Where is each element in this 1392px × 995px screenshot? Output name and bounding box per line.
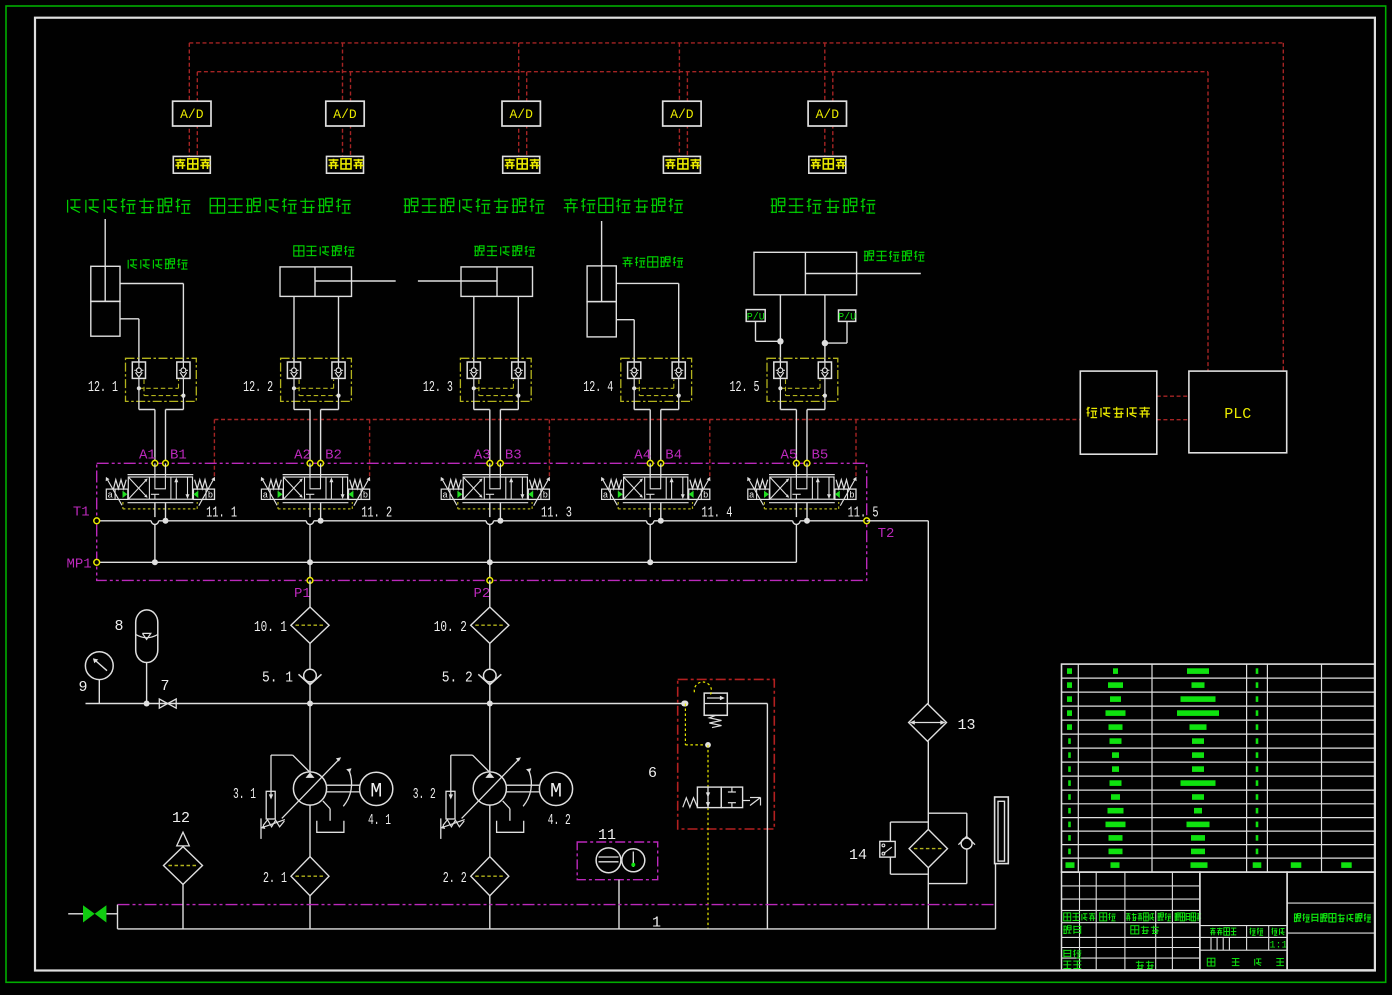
svg-text:12. 5: 12. 5 [730,379,760,396]
svg-text:b: b [543,491,548,501]
red links between amplifier and PLC [1157,396,1189,420]
servo valve 12.4 [583,358,691,401]
svg-text:P2: P2 [474,586,491,602]
svg-text:9: 9 [79,679,88,696]
svg-text:A/D: A/D [509,107,533,122]
cylinder 3 后助辊油缸 (horizontal mirrored) [418,267,533,363]
pressure gauge in unit 11 [596,848,621,873]
svg-text:12. 4: 12. 4 [583,379,613,396]
thermometer in unit 11 [619,849,645,929]
svg-text:2. 2: 2. 2 [443,870,467,887]
pressure transducer box P/U left [746,310,783,345]
suction filter 2.1 [263,805,329,929]
svg-text:12: 12 [172,810,190,827]
wire check valve 5.1 to pump 3.1 [309,704,311,772]
label 侧导板伺服系统 [564,198,683,212]
valve P-port drop wires [155,502,797,580]
cooler 13 [909,704,976,742]
oil tank symbol [995,797,1009,929]
svg-text:A/D: A/D [333,107,357,122]
red signal drop wires channel 3 [519,43,527,156]
wire T2 to cooler column [867,521,929,704]
svg-text:a: a [107,491,113,501]
pressure gauge 9 [79,652,114,704]
svg-text:T2: T2 [878,526,895,542]
svg-text:a: a [603,491,609,501]
variable pump 3.1 [233,755,344,839]
electric motor 4.1 [327,768,393,829]
electric motor 4.2 [506,768,572,829]
valve T-port drop wires [166,502,808,521]
A/D converter box channel 2 [326,101,364,126]
proportional directional valve 11.5 [747,463,878,521]
svg-text:A/D: A/D [670,107,694,122]
svg-text:11. 3: 11. 3 [541,505,572,522]
filter 10.2 [434,607,509,643]
svg-text:7: 7 [161,678,170,695]
red signal bus line A (top) [189,43,1283,371]
svg-text:T1: T1 [73,505,90,521]
svg-text:B1: B1 [170,448,187,464]
gauge assembly 11 enclosure [577,827,658,880]
sensor box 传感器 channel 3 [503,156,540,173]
svg-text:12. 1: 12. 1 [88,379,118,396]
node B2 [318,448,342,467]
svg-text:1: 1 [652,915,661,932]
svg-text:12. 2: 12. 2 [243,379,273,396]
svg-text:11. 2: 11. 2 [361,505,392,522]
solenoid unloading valve in unit 6 [683,787,761,808]
wire P1 down to filter 10.1 [309,580,311,607]
svg-text:MP1: MP1 [67,557,92,573]
check valve 5.2 [442,643,502,703]
svg-text:A/D: A/D [180,107,204,122]
svg-text:12. 3: 12. 3 [423,379,453,396]
node A2 [294,448,313,467]
sensor box 传感器 channel 5 [809,156,846,173]
svg-text:5. 2: 5. 2 [442,670,473,687]
red signal drop wires channel 5 [825,43,833,156]
shut-off valve 7 [159,678,176,708]
magenta return boundary line [118,904,995,906]
check valve 5.1 [262,643,322,703]
title block row entries (green) [1066,668,1352,868]
node B3 [498,448,522,467]
title block drawing name cell [1287,872,1375,970]
red signal drop wires channel 1 [189,43,197,156]
node T2 [864,518,895,542]
filter 10.1 [254,607,329,643]
svg-text:a: a [263,491,269,501]
sensor box 传感器 channel 2 [327,156,364,173]
A/D converter box channel 4 [663,101,701,126]
wire cooler to return filter 14 [927,741,929,829]
PLC controller box [1189,371,1287,453]
svg-text:11: 11 [598,827,616,844]
wires servo 12.1 to valve 11.1 ports A1 B1 [139,401,184,463]
accumulator 8 [115,610,158,704]
label 前助辊油缸 [294,246,355,256]
red signal drop wires channel 2 [343,43,351,156]
tank line 1 [118,915,996,932]
pilot control dotted lines unit 6 [685,704,710,929]
svg-text:B4: B4 [665,448,682,464]
label 后助辊油缸 [474,246,535,256]
svg-text:3. 2: 3. 2 [413,786,436,803]
svg-text:M: M [550,780,562,803]
svg-text:5. 1: 5. 1 [262,670,293,687]
wires servo 12.3 to valve 11.3 ports A3 B3 [474,401,519,463]
pilot relief valve in unit 6 [682,682,767,728]
svg-text:10. 2: 10. 2 [434,619,467,636]
node A4 [634,448,653,467]
svg-text:b: b [208,491,213,501]
title block table [1062,664,1375,872]
tank manifold line T1-T2 [97,518,867,525]
node B1 [163,448,187,467]
svg-text:8: 8 [115,618,124,635]
svg-text:4. 2: 4. 2 [548,812,571,829]
pressure transducer box P/U right [822,310,856,346]
cylinder 1 夹送辊油缸 (vertical) [91,219,184,363]
node A1 [139,448,158,467]
svg-text:A/D: A/D [816,107,840,122]
red signal drop wires channel 4 [679,43,687,156]
sensor box 传感器 channel 1 [173,156,210,173]
air filter 12 [164,810,203,929]
svg-text:b: b [703,491,708,501]
sensor box 传感器 channel 4 [663,156,700,173]
svg-text:M: M [370,780,382,803]
svg-text:2. 1: 2. 1 [263,870,287,887]
proportional amplifier box 比例放大器 [1080,371,1157,454]
variable pump 3.2 [413,755,524,839]
svg-text:10. 1: 10. 1 [254,619,287,636]
node P2 [474,578,493,603]
node T1 [73,505,100,524]
A/D converter box channel 1 [173,101,211,126]
svg-text:b: b [849,491,854,501]
svg-text:13: 13 [958,717,976,734]
wires servo 12.4 to valve 11.4 ports A4 B4 [634,401,679,463]
cylinder 4 侧导板油缸 (vertical) [587,221,679,363]
svg-text:B3: B3 [505,448,522,464]
suction filter 2.2 [443,805,509,929]
svg-text:B2: B2 [325,448,342,464]
servo valve 12.3 [423,358,531,401]
A/D converter box channel 5 [808,101,846,126]
manifold block boundary (magenta chain line) [97,463,867,580]
svg-text:6: 6 [648,765,657,782]
wire check valve 5.2 to pump 3.2 [489,704,491,772]
pressure switch on filter 14 [880,841,895,857]
pressure manifold line MP1 [97,559,797,565]
svg-text:3. 1: 3. 1 [233,786,256,803]
proportional directional valve 11.1 [106,463,237,521]
svg-text:11. 5: 11. 5 [848,505,879,522]
svg-text:b: b [363,491,368,501]
svg-text:PLC: PLC [1224,406,1251,423]
label 卷筒主油缸 [864,251,925,261]
red signal bus line B [197,72,1208,371]
svg-text:P1: P1 [294,586,311,602]
wires servo 12.5 to valve 11.5 ports A5 B5 [780,401,825,463]
proportional directional valve 11.2 [261,463,392,521]
drain shut-off valve (green) [68,905,117,929]
node A5 [781,448,800,467]
unloading relief valve unit 6 enclosure [648,679,774,829]
servo valve 12.2 [243,358,351,401]
title block middle section [1200,872,1288,970]
label 夹送辊伺服系统 [68,198,191,213]
relief discharge wire to tank line [766,704,768,929]
node P1 [294,578,313,603]
return filter 14 with bypass [849,813,975,929]
title block signature grid [1062,872,1202,970]
label 夹送辊油缸 [128,259,187,269]
node B5 [804,448,828,467]
svg-text:1:1: 1:1 [1269,941,1287,952]
svg-text:a: a [749,491,755,501]
amplifier output red wire to valves [214,420,1080,480]
proportional directional valve 11.3 [441,463,572,521]
cylinder 5 卷筒主油缸 (large horizontal) [754,252,921,362]
A/D converter box channel 3 [502,101,540,126]
svg-text:11. 4: 11. 4 [701,505,732,522]
wires servo 12.2 to valve 11.2 ports A2 B2 [294,401,339,463]
label 前助卷辊伺服系统 [210,198,350,213]
svg-text:11. 1: 11. 1 [206,505,237,522]
servo valve 12.1 [88,358,196,401]
svg-text:B5: B5 [812,448,829,464]
label 后助卷辊伺服系统 [404,198,544,213]
node A3 [474,448,493,467]
svg-text:4. 1: 4. 1 [368,812,391,829]
wire P2 down to filter 10.2 [489,580,491,607]
label 卷筒伺服系统 [771,198,875,213]
label 侧导板油缸 [623,257,684,267]
svg-text:a: a [442,491,448,501]
servo valve 12.5 [730,358,838,401]
proportional directional valve 11.4 [601,463,732,521]
pressure line from gauge to relief valve 6 [86,701,688,707]
svg-text:14: 14 [849,847,867,864]
cylinder 2 前助辊油缸 (horizontal) [280,267,396,363]
node MP1 [67,557,100,573]
node B4 [658,448,682,467]
